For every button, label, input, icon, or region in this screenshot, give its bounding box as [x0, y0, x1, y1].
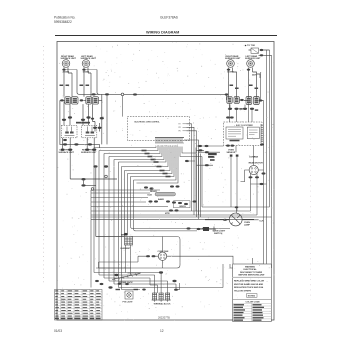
bake element E1 hatched	[121, 235, 133, 250]
EOC connector pin comb P1	[155, 138, 184, 148]
wires right region horizontals	[196, 148, 270, 218]
surface switch SW-RF contact pair	[60, 97, 78, 145]
EOC fanout horizontal wires	[94, 147, 202, 184]
wires switch to infinite switch left	[64, 94, 107, 144]
terminal block TB1	[152, 293, 172, 305]
convection fan motor M2	[158, 250, 169, 261]
relay cluster labels	[150, 190, 187, 215]
wire color label blobs on staircase	[142, 150, 171, 178]
svg-text:DLB: DLB	[148, 194, 153, 196]
relay contact nodes row	[149, 200, 197, 211]
right surface unit leads	[229, 68, 237, 98]
svg-text:YELLOW STRIPE: YELLOW STRIPE	[234, 291, 252, 293]
node row under infinite switches	[61, 139, 97, 151]
svg-text:MTR: MTR	[165, 213, 170, 215]
svg-text:WARNING: WARNING	[245, 266, 255, 269]
conv fan wires loop	[138, 237, 163, 269]
svg-text:Publication No.: Publication No.	[54, 16, 76, 20]
surface unit LR (left rear) circle	[245, 55, 261, 77]
svg-text:SURFACE UNIT: SURFACE UNIT	[59, 151, 75, 154]
warning notice box	[233, 264, 272, 322]
surface switch SW-LR contact pair	[244, 97, 264, 105]
svg-text:FAN: FAN	[254, 155, 259, 158]
svg-text:GLEF378AS: GLEF378AS	[160, 16, 178, 20]
oven sensor probe pins	[230, 155, 239, 212]
svg-text:COLOR CODE: COLOR CODE	[246, 301, 261, 303]
svg-text:2622077B: 2622077B	[158, 316, 170, 320]
surface unit RR (right rear) circle	[225, 55, 241, 74]
door switch wires	[185, 146, 224, 165]
bundle junction nodes	[95, 271, 178, 291]
right margin scan dots	[310, 45, 312, 300]
clock-timer dashed box right	[224, 116, 264, 146]
svg-text:TERMINAL BLOCK: TERMINAL BLOCK	[154, 302, 172, 305]
svg-text:RELAY: RELAY	[150, 190, 157, 193]
right vertical bus wires	[230, 50, 272, 268]
svg-text:WIRING DIAGRAM: WIRING DIAGRAM	[146, 31, 179, 35]
wire from node pair to bus	[84, 180, 97, 185]
svg-text:SENSOR: SENSOR	[227, 152, 236, 154]
convection motor M1 circle	[249, 155, 264, 174]
svg-text:LAMP: LAMP	[244, 224, 251, 227]
scan speckle noise	[58, 42, 275, 321]
wire color labels left leads	[60, 85, 90, 87]
infinite switch left-front dashed box	[61, 125, 77, 138]
infinite switch labels	[59, 150, 98, 154]
wire color code table	[55, 289, 103, 320]
long cross wires y211-228	[91, 190, 254, 288]
node row under right switches	[228, 108, 258, 111]
thermal fuse F1	[197, 227, 226, 236]
door switch nodes left of dashed box	[185, 145, 217, 166]
svg-text:MUST BE SAME GAUGE AND: MUST BE SAME GAUGE AND	[234, 283, 264, 286]
table text smudge	[55, 290, 101, 319]
wires around motor	[236, 146, 264, 185]
svg-text:SURFACE UNIT: SURFACE UNIT	[81, 151, 97, 154]
svg-text:SWITCH: SWITCH	[214, 233, 223, 235]
wire nodes y166	[93, 165, 206, 230]
svg-text:▶ TO TOD: ▶ TO TOD	[244, 44, 255, 47]
left margin scan dots	[43, 46, 45, 285]
infinite switch right-front dashed box	[82, 125, 97, 138]
node pair below motor	[249, 143, 266, 185]
wire leads from left surface units	[64, 67, 72, 96]
svg-text:SURFACE UNIT: SURFACE UNIT	[81, 57, 97, 60]
oven light lamp holder	[116, 289, 139, 304]
main horizontal wire L1 bus y94.5	[80, 93, 228, 95]
node on L1 bus 2	[133, 93, 137, 95]
wire color labels right leads	[230, 85, 259, 90]
conv fan nodes	[146, 255, 156, 257]
node pair mid-left	[81, 178, 85, 187]
svg-text:BAKE: BAKE	[158, 198, 165, 201]
svg-text:5995384822: 5995384822	[54, 20, 72, 24]
svg-text:P2: P2	[179, 124, 181, 126]
node row under left switches	[62, 116, 104, 123]
node on L1 bus	[92, 93, 96, 95]
frame border	[57, 42, 274, 321]
svg-text:BEFORE SERVICING UNIT: BEFORE SERVICING UNIT	[239, 275, 266, 277]
svg-text:REAR MOTOR: REAR MOTOR	[249, 162, 264, 165]
broil feed node	[124, 233, 128, 236]
wire vertical drop right of SU1	[77, 70, 100, 95]
surface unit LF (left front) top-left circle 2	[81, 55, 97, 74]
svg-text:REPLACE WIRE WIRE COLOR: REPLACE WIRE WIRE COLOR	[234, 279, 265, 282]
surface switch SW-LF contact pair	[80, 97, 102, 104]
twisted jumper diagonal component	[112, 273, 140, 284]
svg-text:ELECTRICAL: ELECTRICAL	[244, 268, 258, 271]
header publication text	[54, 16, 179, 35]
svg-text:ELEMENT: ELEMENT	[121, 248, 132, 250]
relay outline box K1	[174, 201, 191, 208]
svg-text:BROIL: BROIL	[121, 235, 128, 237]
surface unit RF (right front) top-left circle	[61, 55, 77, 74]
relay coil pill K1	[148, 192, 176, 196]
svg-text:CONV FAN: CONV FAN	[158, 250, 169, 253]
open terminal circle on L1 bus	[121, 93, 124, 96]
svg-text:SURFACE UNIT: SURFACE UNIT	[61, 57, 77, 60]
svg-text:SURFACE UNIT: SURFACE UNIT	[245, 57, 261, 60]
electronic oven control dashed box U1	[127, 117, 189, 141]
central vertical bus wires	[94, 148, 134, 290]
oven sensor label under dashed box	[227, 150, 236, 155]
svg-text:PVS LIGHT: PVS LIGHT	[123, 301, 134, 303]
wires right switches down	[230, 103, 253, 122]
bottom wire bundle horizontals	[94, 264, 223, 293]
svg-text:NOTED: NOTED	[248, 295, 256, 297]
header underline	[55, 35, 277, 37]
svg-text:12: 12	[160, 329, 164, 333]
svg-text:1 2 3 4 5 6 7 8 9 10 11 12 13: 1 2 3 4 5 6 7 8 9 10 11 12 13 14	[156, 145, 179, 147]
TOD thermal switch top right box	[244, 44, 270, 57]
wires from comb up to right of EOC	[184, 124, 199, 220]
oven lamp DS1 circle	[229, 213, 250, 226]
svg-text:01/03: 01/03	[54, 329, 62, 333]
wires below left labels	[60, 138, 100, 149]
svg-text:P6: P6	[179, 131, 181, 133]
svg-text:P4: P4	[179, 127, 181, 129]
bake element leads	[126, 245, 131, 275]
svg-text:ELEC CLOCK/TIMER: ELEC CLOCK/TIMER	[236, 125, 253, 127]
svg-text:BROIL: BROIL	[180, 206, 187, 208]
open circle junction mid	[105, 175, 108, 178]
svg-text:ELECTRONIC OVEN CONTROL: ELECTRONIC OVEN CONTROL	[135, 121, 160, 123]
surface switch SW-RR contact pair	[225, 93, 244, 103]
svg-text:SURFACE UNIT: SURFACE UNIT	[225, 57, 241, 60]
lamp wires	[205, 207, 259, 220]
